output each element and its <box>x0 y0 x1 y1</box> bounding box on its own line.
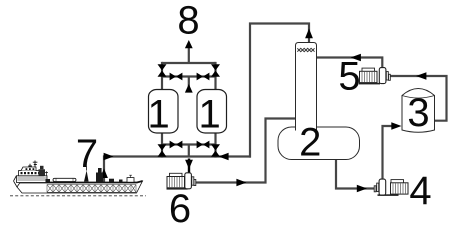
svg-text:1: 1 <box>198 93 220 137</box>
svg-text:1: 1 <box>147 93 169 137</box>
svg-text:6: 6 <box>169 187 191 226</box>
svg-text:5: 5 <box>338 55 360 99</box>
svg-text:2: 2 <box>299 121 321 165</box>
svg-text:3: 3 <box>407 91 429 135</box>
svg-text:4: 4 <box>409 169 431 213</box>
svg-text:8: 8 <box>177 0 199 43</box>
svg-text:7: 7 <box>76 132 98 176</box>
